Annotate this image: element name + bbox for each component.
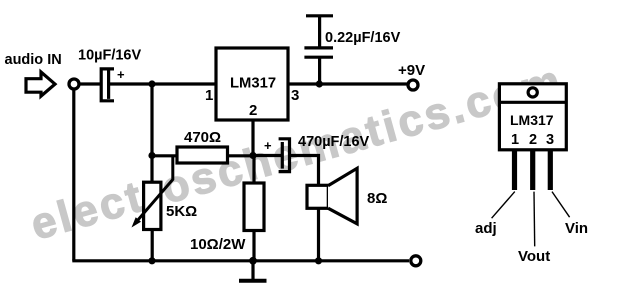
node: junction C1 output / feedback (148, 80, 155, 87)
node: junction pin2 / R1 / R3 / C3 (249, 152, 256, 159)
svg-text:10µF/16V: 10µF/16V (78, 48, 141, 64)
annotation line adj (492, 192, 515, 219)
svg-text:2: 2 (249, 102, 257, 119)
output terminal circle bottom right (411, 256, 421, 266)
svg-text:+9V: +9V (398, 62, 425, 79)
wire: vertical feedback from node to pot R2 (150, 84, 153, 181)
wire: C2 top stem (318, 16, 321, 47)
svg-text:470µF/16V: 470µF/16V (298, 134, 370, 150)
svg-text:10Ω/2W: 10Ω/2W (190, 236, 246, 253)
package mounting hole (528, 88, 537, 97)
capacitor C1 10uF/16V (bracket plate) (101, 69, 114, 101)
node: junction pin3 / C2 (316, 80, 323, 87)
svg-text:0.22µF/16V: 0.22µF/16V (325, 30, 401, 46)
capacitor C2 plate 2 (304, 56, 333, 59)
svg-text:+: + (117, 67, 125, 82)
svg-text:1: 1 (511, 132, 519, 148)
annotation line Vin (552, 192, 570, 218)
package leg 3 (548, 150, 553, 190)
wire: node to resistor R1 (152, 154, 178, 157)
wire: LM317 pin 2 vertical (251, 120, 254, 156)
speaker LS1 horn (328, 168, 357, 224)
watermark electroschematics.com (26, 56, 569, 250)
svg-text:1: 1 (205, 87, 213, 104)
wire: C1 to LM317 pin 1 (110, 82, 216, 85)
wire: R2 bottom to rail (151, 230, 154, 261)
node: junction speaker / rail (315, 257, 322, 264)
svg-text:470Ω: 470Ω (184, 129, 221, 146)
annotation line Vout (533, 192, 536, 247)
wire: R3 bottom to rail (252, 231, 255, 261)
LM317 package outline (TO-220) (499, 84, 566, 150)
wire: C3 to speaker (291, 156, 319, 186)
svg-text:LM317: LM317 (230, 76, 276, 92)
capacitor C3 inner plate (281, 142, 284, 169)
node: junction R3 / ground (249, 257, 257, 265)
svg-text:Vout: Vout (518, 248, 550, 265)
package tab divider (499, 101, 566, 104)
package leg 1 (512, 150, 517, 190)
wire: node to resistor R3 (252, 156, 255, 184)
svg-text:3: 3 (546, 132, 554, 148)
input terminal circle (69, 79, 79, 89)
svg-text:adj: adj (475, 220, 497, 237)
wire: bottom rail (72, 259, 409, 262)
svg-text:3: 3 (291, 87, 299, 104)
op-amp U1 LM317 regulator box (216, 48, 288, 120)
svg-text:8Ω: 8Ω (367, 190, 387, 207)
svg-text:+: + (264, 138, 272, 153)
wire: LM317 pin 3 to +9V terminal (288, 82, 409, 85)
potentiometer R2 5K body (144, 182, 161, 229)
wire: speaker bottom to rail (317, 208, 320, 260)
input block arrow (26, 72, 55, 96)
capacitor C1 inner plate (107, 70, 110, 99)
wire: C2 bottom stem (318, 57, 321, 84)
svg-text:Vin: Vin (565, 220, 588, 237)
resistor R1 470 ohm (177, 147, 228, 163)
package leg 2 (530, 150, 535, 190)
capacitor C3 bracket plate (279, 139, 290, 172)
resistor R3 10 ohm 2W (244, 183, 264, 231)
svg-text:LM317: LM317 (510, 112, 554, 128)
wire: left vertical from input circle to bottom rail (72, 89, 75, 261)
ground symbol (251, 261, 254, 279)
node: junction feedback / R1 row (148, 152, 155, 159)
wire: input circle to capacitor C1 (81, 82, 102, 85)
svg-text:5KΩ: 5KΩ (166, 203, 197, 220)
capacitor C2 0.22uF/16V top bar (306, 14, 333, 17)
capacitor C2 plate 1 (304, 46, 333, 49)
speaker LS1 box (307, 185, 328, 208)
svg-text:audio IN: audio IN (5, 52, 62, 68)
wire: node to capacitor C3 (253, 154, 281, 157)
+9V terminal circle (408, 80, 418, 90)
potentiometer R2 wiper arrow (136, 157, 173, 223)
node: junction R2 / rail (148, 257, 155, 264)
wire: R1 to pin2 node (227, 154, 254, 157)
svg-text:2: 2 (529, 132, 537, 148)
